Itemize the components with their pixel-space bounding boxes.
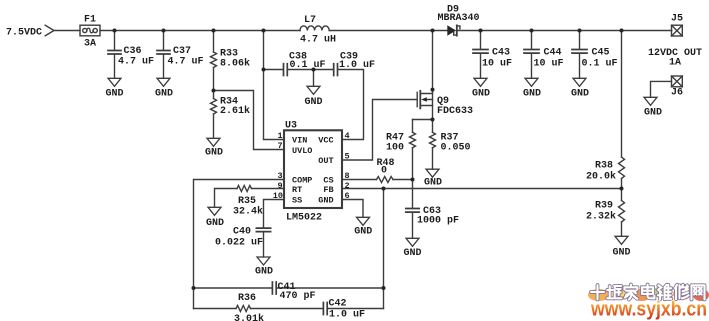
svg-text:C40: C40 (233, 227, 251, 238)
svg-text:32.4k: 32.4k (233, 206, 263, 218)
svg-text:3A: 3A (84, 39, 96, 50)
svg-text:2: 2 (345, 181, 350, 191)
svg-text:GND: GND (404, 248, 422, 259)
svg-text:4: 4 (345, 131, 350, 141)
svg-text:GND: GND (354, 227, 372, 238)
svg-text:2.61k: 2.61k (220, 105, 250, 117)
svg-text:VCC: VCC (318, 136, 333, 146)
svg-text:COMP: COMP (292, 176, 312, 186)
svg-text:8.06k: 8.06k (220, 58, 250, 70)
svg-text:LM5022: LM5022 (286, 213, 322, 224)
svg-text:GND: GND (205, 147, 223, 158)
svg-text:10 uF: 10 uF (534, 59, 564, 70)
svg-text:4.7 uF: 4.7 uF (118, 57, 154, 68)
svg-text:R38: R38 (595, 161, 613, 172)
svg-text:GND: GND (155, 89, 173, 100)
svg-text:FB: FB (323, 185, 333, 195)
svg-text:C37: C37 (173, 46, 191, 57)
svg-text:R35: R35 (238, 196, 256, 207)
svg-text:CS: CS (323, 176, 333, 186)
svg-text:C43: C43 (492, 48, 510, 59)
svg-text:FDC633: FDC633 (437, 106, 473, 117)
svg-text:1.0 uF: 1.0 uF (329, 310, 365, 321)
svg-text:F1: F1 (84, 14, 96, 25)
svg-text:470 pF: 470 pF (280, 291, 316, 302)
svg-text:0.1 uF: 0.1 uF (582, 59, 618, 70)
svg-text:GND: GND (472, 89, 490, 100)
svg-text:VIN: VIN (292, 136, 307, 146)
svg-text:1000 pF: 1000 pF (417, 216, 459, 227)
svg-text:20.0k: 20.0k (586, 171, 616, 183)
svg-text:J5: J5 (671, 14, 683, 25)
svg-text:GND: GND (106, 89, 124, 100)
svg-text:GND: GND (206, 218, 224, 229)
svg-text:R36: R36 (238, 293, 256, 304)
svg-text:GND: GND (424, 178, 442, 189)
svg-text:L7: L7 (304, 15, 316, 26)
svg-text:2.32k: 2.32k (586, 211, 616, 223)
svg-text:GND: GND (644, 108, 662, 119)
svg-text:6: 6 (345, 191, 350, 201)
svg-text:GND: GND (523, 89, 541, 100)
svg-text:1.0 uF: 1.0 uF (339, 60, 375, 71)
svg-text:GND: GND (613, 247, 631, 258)
svg-text:0.022 uF: 0.022 uF (215, 238, 263, 249)
svg-text:C36: C36 (124, 46, 142, 57)
svg-text:C42: C42 (329, 299, 347, 310)
svg-text:10 uF: 10 uF (482, 59, 512, 70)
svg-text:R39: R39 (595, 201, 613, 212)
svg-text:0.050: 0.050 (441, 143, 471, 154)
svg-text:C44: C44 (544, 48, 562, 59)
svg-text:J6: J6 (671, 88, 683, 99)
svg-text:U3: U3 (285, 121, 297, 132)
svg-text:1A: 1A (669, 58, 681, 69)
svg-text:3: 3 (278, 171, 283, 181)
svg-text:GND: GND (255, 267, 273, 278)
svg-text:9: 9 (278, 181, 283, 191)
svg-text:10: 10 (273, 191, 283, 201)
svg-text:4.7 uH: 4.7 uH (300, 35, 336, 46)
svg-text:7: 7 (278, 141, 283, 151)
svg-text:OUT: OUT (318, 156, 333, 166)
svg-text:8: 8 (345, 171, 350, 181)
svg-text:UVLO: UVLO (292, 146, 312, 156)
svg-text:MBRA340: MBRA340 (438, 13, 480, 24)
svg-text:C45: C45 (592, 48, 610, 59)
svg-text:4.7 uF: 4.7 uF (168, 57, 204, 68)
svg-text:www.syjxb.cn: www.syjxb.cn (590, 298, 707, 321)
svg-text:100: 100 (386, 143, 404, 154)
svg-text:7.5VDC: 7.5VDC (6, 28, 42, 39)
svg-text:3.01k: 3.01k (234, 313, 264, 321)
svg-text:GND: GND (305, 97, 323, 108)
svg-text:RT: RT (292, 185, 302, 195)
svg-text:GND: GND (318, 195, 333, 205)
svg-text:5: 5 (345, 151, 350, 161)
svg-text:1: 1 (278, 131, 283, 141)
svg-text:SS: SS (292, 195, 302, 205)
svg-text:0.1 uF: 0.1 uF (290, 60, 326, 71)
svg-text:0: 0 (381, 165, 387, 176)
svg-text:GND: GND (571, 89, 589, 100)
